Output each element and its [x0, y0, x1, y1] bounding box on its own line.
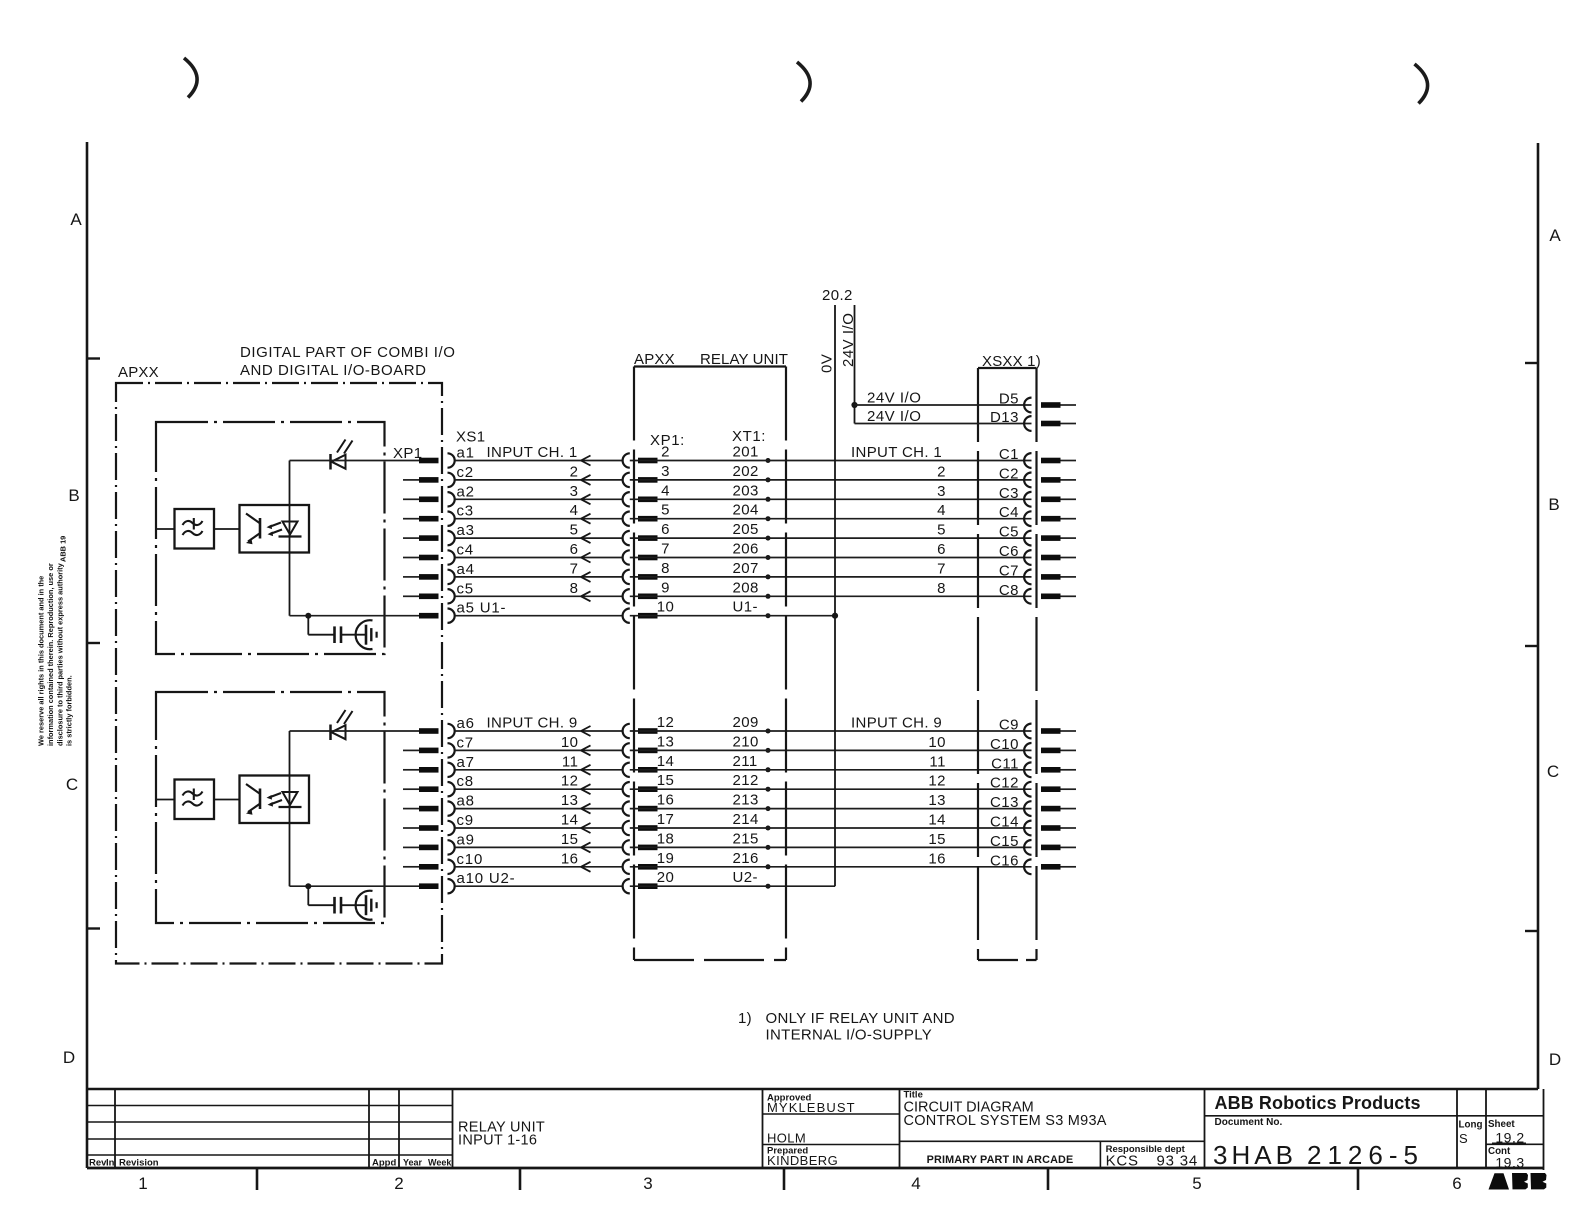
wire U2- rail to XP1 pin — [290, 885, 420, 887]
svg-text:ABB 19: ABB 19 — [59, 536, 68, 562]
svg-text:11: 11 — [929, 753, 946, 770]
title block — [87, 1088, 1538, 1090]
wire stub inside board to XP1 pin (row a7) — [403, 769, 419, 771]
svg-text:2: 2 — [394, 1174, 403, 1193]
signal direction arrow (into board) — [581, 726, 591, 731]
signal direction arrow (into board) — [581, 572, 591, 577]
wire LED branch vertical (cathode of D1 to U1- rail) — [289, 461, 291, 616]
24V I/O bus wire — [854, 305, 856, 424]
wire stub inside board to XP1 pin (row c7) — [403, 749, 419, 751]
connector relay-unit XP1 plug pin 2 — [638, 458, 658, 464]
svg-text:9: 9 — [661, 579, 670, 596]
connector XSXX socket pin C2 — [1024, 473, 1031, 488]
svg-text:0V: 0V — [819, 354, 836, 373]
terminal XT1 207 junction dot — [766, 574, 771, 579]
svg-text:CONTROL SYSTEM S3 M93A: CONTROL SYSTEM S3 M93A — [904, 1113, 1107, 1129]
wire XT1 214 to XSXX C14 — [630, 827, 1032, 829]
board outline APXX digital part of combi I/O (dash-dot box) — [116, 383, 442, 964]
terminal XT1 204 junction dot — [766, 516, 771, 521]
wire XT1 211 to XSXX C11 — [630, 769, 1032, 771]
capacitor C1 — [333, 626, 336, 643]
connector XSXX socket pin C13 — [1024, 801, 1031, 816]
svg-text:5: 5 — [661, 502, 670, 519]
svg-text:c5: c5 — [457, 580, 474, 597]
connector XS1 socket c7 — [448, 743, 455, 757]
connector XP1 plug pin (row c7) — [419, 748, 439, 754]
svg-text:information contained therein.: information contained therein. Reproduct… — [46, 563, 55, 746]
wire stub right of XSXX C13 — [1061, 808, 1077, 810]
svg-text:C: C — [66, 775, 78, 794]
connector relay-unit XP1 plug pin 8 — [638, 574, 658, 580]
svg-text:B: B — [68, 486, 79, 505]
signal direction arrow (into board) — [581, 533, 591, 538]
optocoupler U2 light arrows — [269, 793, 281, 798]
svg-text:C12: C12 — [990, 775, 1019, 792]
wire XS1 a8 to relay-unit XP1 pin 16 — [455, 808, 623, 810]
svg-text:4: 4 — [911, 1174, 920, 1193]
svg-text:a5 U1-: a5 U1- — [457, 600, 507, 617]
svg-text:24V I/O: 24V I/O — [867, 408, 921, 425]
svg-text:Appd: Appd — [372, 1158, 396, 1169]
svg-text:c7: c7 — [457, 734, 474, 751]
connector relay-unit XP1 plug pin 4 — [638, 497, 658, 503]
svg-text:18: 18 — [657, 830, 675, 847]
connector XSXX plug pin C6 — [1041, 555, 1061, 561]
connector XS1 socket a4 — [448, 570, 455, 584]
wire XS1 c7 to relay-unit XP1 pin 13 — [455, 749, 623, 751]
svg-text:93 34: 93 34 — [1156, 1153, 1198, 1170]
optocoupler U2 box — [240, 776, 310, 824]
svg-text:13: 13 — [928, 792, 946, 809]
connector XSXX plug pin D13 — [1041, 421, 1061, 427]
svg-text:6: 6 — [661, 521, 670, 538]
svg-text:is strictly forbidden.: is strictly forbidden. — [65, 675, 74, 746]
wire XS1 a2 to relay-unit XP1 pin 4 — [455, 498, 623, 500]
connector XSXX socket pin C4 — [1024, 511, 1031, 526]
connector XP1 plug pin (row a3) — [419, 535, 439, 541]
connector XSXX plug pin D5 — [1041, 402, 1061, 408]
svg-text:INPUT CH. 1: INPUT CH. 1 — [487, 444, 578, 461]
connector XSXX socket pin C11 — [1024, 762, 1031, 777]
svg-text:APXX: APXX — [118, 364, 159, 381]
wire XS1 a3 to relay-unit XP1 pin 6 — [455, 537, 623, 539]
connector XS1 socket a5 — [448, 609, 455, 623]
svg-text:C10: C10 — [990, 736, 1019, 753]
signal direction arrow (into board) — [581, 514, 591, 519]
connector XS1 socket c9 — [448, 821, 455, 835]
connector XSXX plug pin C10 — [1041, 748, 1061, 754]
svg-text:209: 209 — [733, 714, 759, 731]
svg-text:c9: c9 — [457, 812, 474, 829]
svg-text:We reserve all rights in this: We reserve all rights in this document a… — [37, 576, 46, 746]
wire XT1 216 to XSXX C16 — [630, 866, 1032, 868]
svg-text:10: 10 — [561, 734, 579, 751]
wire XT1 209 to XSXX C9 — [630, 730, 1032, 732]
svg-text:24V I/O: 24V I/O — [840, 313, 857, 367]
wire stub right of XSXX C9 — [1061, 730, 1077, 732]
connector XP1 plug pin (row c9) — [419, 825, 439, 831]
wire XT1 U2- to 0V bus — [630, 885, 835, 887]
signal direction arrow (into board) — [581, 553, 591, 558]
wire junction to capacitor C2 — [307, 886, 309, 905]
connector relay-unit XP1 socket pin 9 — [623, 589, 630, 603]
connector relay-unit XP1 socket pin 7 — [623, 550, 630, 564]
svg-text:206: 206 — [733, 541, 759, 558]
svg-text:Long: Long — [1459, 1120, 1483, 1131]
svg-text:205: 205 — [733, 521, 759, 538]
connector relay-unit XP1 plug pin 16 — [638, 806, 658, 812]
svg-text:14: 14 — [657, 753, 675, 770]
connector XSXX plug pin C7 — [1041, 574, 1061, 580]
wire stub inside board to XP1 pin (row a9) — [403, 846, 419, 848]
connector XS1 socket a7 — [448, 763, 455, 777]
wire XT1 204 to XSXX C4 — [630, 518, 1032, 520]
connector XP1 plug pin (row a8) — [419, 806, 439, 812]
connector relay-unit XP1 socket pin 6 — [623, 531, 630, 545]
connector XSXX socket pin D5 — [1024, 398, 1031, 413]
svg-text:C11: C11 — [991, 755, 1019, 772]
terminal XT1 210 junction dot — [766, 748, 771, 753]
svg-text:disclosure to third parties wi: disclosure to third parties without expr… — [55, 562, 64, 746]
svg-text:INPUT 1-16: INPUT 1-16 — [458, 1133, 537, 1149]
wire stub right of XSXX C15 — [1061, 846, 1077, 848]
svg-text:C16: C16 — [990, 852, 1019, 869]
wire capacitor C1 to ground — [341, 634, 366, 636]
svg-text:20.2: 20.2 — [822, 287, 853, 304]
connector XSXX socket pin C5 — [1024, 531, 1031, 546]
signal direction arrow (into board) — [581, 745, 591, 750]
junction 0V bus to U1- rail — [832, 613, 838, 619]
svg-text:4: 4 — [661, 482, 670, 499]
wire stub right of XSXX D13 — [1061, 423, 1077, 425]
svg-text:c4: c4 — [457, 542, 474, 559]
connector XSXX plug pin C5 — [1041, 535, 1061, 541]
wire XT1 210 to XSXX C10 — [630, 749, 1032, 751]
svg-text:10: 10 — [928, 734, 946, 751]
svg-text:INPUT CH. 9: INPUT CH. 9 — [487, 715, 578, 732]
wire XT1 213 to XSXX C13 — [630, 808, 1032, 810]
connector XSXX plug pin C16 — [1041, 864, 1061, 870]
wire 24V I/O to XSXX D5 — [855, 404, 1032, 406]
wire stub right of XSXX C11 — [1061, 769, 1077, 771]
svg-text:C5: C5 — [999, 524, 1019, 541]
signal direction arrow (into board) — [581, 823, 591, 828]
optocoupler U2 phototransistor — [259, 789, 262, 810]
opto channel block 1 outline (dash-dot box) — [156, 422, 385, 654]
wire XS1 c5 to relay-unit XP1 pin 9 — [455, 595, 623, 597]
svg-text:3: 3 — [937, 483, 946, 500]
ground symbol (signal ground) — [356, 620, 373, 649]
wire XT1 201 to XSXX C1 — [630, 460, 1032, 462]
svg-text:3HAB: 3HAB — [1213, 1140, 1297, 1170]
svg-text:1): 1) — [738, 1010, 752, 1027]
connector XP1 plug pin (row c2) — [419, 477, 439, 483]
wire XT1 202 to XSXX C2 — [630, 479, 1032, 481]
svg-text:c10: c10 — [457, 851, 484, 868]
wire anode of LED D2 to XP1 pin — [290, 730, 420, 732]
wire stub right of XSXX C5 — [1061, 537, 1077, 539]
indicator LED D2 — [329, 725, 332, 741]
connector relay-unit XP1 plug pin 19 — [638, 864, 658, 870]
svg-text:C1: C1 — [999, 446, 1019, 463]
terminal XT1 216 junction dot — [766, 864, 771, 869]
svg-text:XSXX 1): XSXX 1) — [982, 353, 1041, 370]
svg-text:D: D — [63, 1048, 75, 1067]
svg-text:20: 20 — [657, 869, 675, 886]
junction on U1- rail (capacitor branch) — [305, 613, 311, 619]
connector XSXX socket pin C16 — [1024, 859, 1031, 874]
svg-text:C8: C8 — [999, 582, 1019, 599]
svg-text:In: In — [106, 1158, 115, 1169]
connector XS1 socket c8 — [448, 782, 455, 796]
svg-text:7: 7 — [570, 560, 579, 577]
connector XP1 plug pin (row a2) — [419, 497, 439, 503]
wire stub inside board to XP1 pin (row c9) — [403, 827, 419, 829]
connector XSXX socket pin C3 — [1024, 492, 1031, 507]
svg-text:14: 14 — [928, 812, 946, 829]
connector XP1 plug pin (row c5) — [419, 594, 439, 600]
connector XSXX socket pin C10 — [1024, 743, 1031, 758]
svg-text:16: 16 — [928, 850, 946, 867]
svg-text:C14: C14 — [990, 814, 1019, 831]
svg-text:PRIMARY PART IN ARCADE: PRIMARY PART IN ARCADE — [927, 1154, 1074, 1166]
connector relay-unit XP1 plug pin 13 — [638, 748, 658, 754]
svg-text:ABB Robotics Products: ABB Robotics Products — [1215, 1093, 1421, 1113]
svg-text:203: 203 — [733, 482, 759, 499]
terminal XT1 211 junction dot — [766, 767, 771, 772]
connector XS1 socket c3 — [448, 512, 455, 526]
svg-text:8: 8 — [570, 580, 579, 597]
svg-text:12: 12 — [657, 714, 675, 731]
svg-text:INPUT CH. 9: INPUT CH. 9 — [851, 715, 942, 732]
connector XSXX plug pin C2 — [1041, 477, 1061, 483]
wire XT1 U1- to 0V bus — [630, 615, 835, 617]
svg-text:INPUT CH. 1: INPUT CH. 1 — [851, 444, 942, 461]
wire XS1 c3 to relay-unit XP1 pin 5 — [455, 518, 623, 520]
wire stub right of XSXX D5 — [1061, 404, 1077, 406]
svg-text:15: 15 — [561, 831, 579, 848]
indicator LED D1 light rays — [337, 440, 346, 453]
svg-text:6: 6 — [937, 541, 946, 558]
wire XT1 205 to XSXX C5 — [630, 537, 1032, 539]
EMI filter FL2 wave symbol — [183, 791, 203, 795]
optocoupler U1 box — [240, 505, 310, 553]
svg-text:215: 215 — [733, 830, 759, 847]
junction on U2- rail (capacitor branch) — [305, 883, 311, 889]
EMI filter FL1 box — [175, 509, 215, 549]
svg-text:MYKLEBUST: MYKLEBUST — [767, 1100, 856, 1115]
connector XP1 plug pin (row a9) — [419, 845, 439, 851]
connector relay-unit XP1 socket pin 15 — [623, 782, 630, 796]
svg-text:3: 3 — [570, 483, 579, 500]
svg-text:APXX: APXX — [634, 351, 675, 368]
wire stub inside board to XP1 pin (row c5) — [403, 595, 419, 597]
wire stub inside board to XP1 pin (row c2) — [403, 479, 419, 481]
wire U1- rail to XP1 pin — [290, 615, 420, 617]
connector XSXX box (dashed) — [978, 367, 1037, 369]
wire stub right of XSXX C1 — [1061, 460, 1077, 462]
connector XP1 plug pin (row c3) — [419, 516, 439, 522]
terminal XT1 U1- junction dot — [766, 613, 771, 618]
svg-text:DIGITAL PART OF COMBI I/O: DIGITAL PART OF COMBI I/O — [240, 344, 455, 361]
svg-text:5: 5 — [1192, 1174, 1201, 1193]
connector XP1 plug pin (row c8) — [419, 786, 439, 792]
connector XSXX plug pin C1 — [1041, 458, 1061, 464]
signal direction arrow (into board) — [581, 456, 591, 461]
svg-text:10: 10 — [657, 599, 675, 616]
svg-text:Document No.: Document No. — [1215, 1117, 1283, 1128]
connector XSXX socket pin C9 — [1024, 724, 1031, 739]
svg-text:XS1: XS1 — [456, 429, 486, 446]
connector XSXX socket pin C12 — [1024, 782, 1031, 797]
svg-text:C: C — [1547, 762, 1559, 781]
wire XT1 207 to XSXX C7 — [630, 576, 1032, 578]
signal direction arrow (into board) — [581, 804, 591, 809]
wire input stub to EMI filter FL1 — [157, 528, 175, 530]
connector XS1 socket c4 — [448, 550, 455, 564]
connector XS1 socket a1 — [448, 453, 455, 467]
connector XS1 socket a10 — [448, 879, 455, 893]
wire XS1 c10 to relay-unit XP1 pin 19 — [455, 866, 623, 868]
svg-text:2: 2 — [937, 463, 946, 480]
svg-text:11: 11 — [562, 753, 579, 770]
wire XS1 a9 to relay-unit XP1 pin 18 — [455, 846, 623, 848]
connector XSXX socket pin C6 — [1024, 550, 1031, 565]
connector XP1 plug pin (row a1) — [419, 458, 439, 464]
connector relay-unit XP1 plug pin 10 — [638, 613, 658, 619]
connector XSXX socket pin C8 — [1024, 589, 1031, 604]
svg-text:2: 2 — [570, 463, 579, 480]
connector relay-unit XP1 plug pin 14 — [638, 767, 658, 773]
signal direction arrow (into board) — [581, 494, 591, 499]
connector XP1 plug pin (row a5 U1-) — [419, 613, 439, 619]
svg-text:D5: D5 — [999, 391, 1019, 408]
wire XT1 215 to XSXX C15 — [630, 846, 1032, 848]
wire stub right of XSXX C8 — [1061, 595, 1077, 597]
EMI filter FL1 wave symbol — [183, 521, 203, 525]
wire stub right of XSXX C10 — [1061, 749, 1077, 751]
connector XS1 socket c2 — [448, 473, 455, 487]
svg-text:3: 3 — [661, 463, 670, 480]
wire EMI filter FL2 to optocoupler U2 — [214, 799, 240, 801]
svg-text:Sheet: Sheet — [1488, 1119, 1515, 1130]
wire LED branch vertical (cathode of D2 to U2- rail) — [289, 731, 291, 886]
EMI filter FL2 box — [175, 780, 215, 820]
terminal XT1 201 junction dot — [766, 458, 771, 463]
connector XS1 socket c10 — [448, 860, 455, 874]
terminal XT1 U2- junction dot — [766, 884, 771, 889]
wire stub right of XSXX C3 — [1061, 498, 1077, 500]
svg-text:U1-: U1- — [733, 599, 758, 616]
svg-text:12: 12 — [561, 773, 579, 790]
svg-text:C9: C9 — [999, 717, 1019, 734]
svg-text:U2-: U2- — [733, 869, 758, 886]
svg-text:15: 15 — [928, 831, 946, 848]
svg-text:C6: C6 — [999, 543, 1019, 560]
svg-text:17: 17 — [657, 811, 675, 828]
svg-text:216: 216 — [733, 850, 759, 867]
svg-text:8: 8 — [937, 580, 946, 597]
ABB logo — [1489, 1173, 1510, 1189]
svg-text:INTERNAL I/O-SUPPLY: INTERNAL I/O-SUPPLY — [766, 1027, 933, 1044]
svg-text:Week: Week — [428, 1158, 452, 1168]
svg-text:C15: C15 — [990, 833, 1019, 850]
terminal XT1 209 junction dot — [766, 729, 771, 734]
terminal XT1 203 junction dot — [766, 497, 771, 502]
connector XSXX plug pin C13 — [1041, 806, 1061, 812]
svg-text:6: 6 — [570, 541, 579, 558]
wire anode of LED D1 to XP1 pin — [290, 460, 420, 462]
wire XS1 c4 to relay-unit XP1 pin 7 — [455, 557, 623, 559]
wire XS1 a10 to relay-unit XP1 pin 20 — [455, 885, 623, 887]
connector relay-unit XP1 socket pin 8 — [623, 570, 630, 584]
connector relay-unit XP1 socket pin 14 — [623, 763, 630, 777]
connector XSXX plug pin C14 — [1041, 825, 1061, 831]
connector XSXX socket pin C7 — [1024, 570, 1031, 585]
connector XS1 socket c5 — [448, 589, 455, 603]
wire stub right of XSXX C14 — [1061, 827, 1077, 829]
svg-text:211: 211 — [733, 753, 758, 770]
wire XS1 a6 to relay-unit XP1 pin 12 — [455, 730, 623, 732]
connector relay-unit XP1 plug pin 3 — [638, 477, 658, 483]
wire stub inside board to XP1 pin (row a3) — [403, 537, 419, 539]
connector relay-unit XP1 plug pin 15 — [638, 786, 658, 792]
wire XT1 203 to XSXX C3 — [630, 498, 1032, 500]
svg-text:7: 7 — [937, 560, 946, 577]
svg-text:5: 5 — [937, 522, 946, 539]
svg-text:a2: a2 — [457, 483, 475, 500]
terminal XT1 212 junction dot — [766, 787, 771, 792]
svg-text:201: 201 — [733, 444, 759, 461]
opto channel block 2 outline (dash-dot box) — [156, 692, 385, 923]
svg-text:Revision: Revision — [119, 1158, 159, 1169]
wire stub inside board to XP1 pin (row c3) — [403, 518, 419, 520]
svg-text:a9: a9 — [457, 831, 475, 848]
connector relay-unit XP1 socket pin 13 — [623, 743, 630, 757]
terminal XT1 214 junction dot — [766, 826, 771, 831]
svg-text:Year: Year — [403, 1158, 423, 1168]
wire input stub to EMI filter FL2 — [157, 799, 175, 801]
svg-text:213: 213 — [733, 792, 759, 809]
optocoupler U1 internal LED — [283, 522, 298, 535]
connector relay-unit XP1 socket pin 4 — [623, 492, 630, 506]
terminal XT1 205 junction dot — [766, 536, 771, 541]
wire XT1 206 to XSXX C6 — [630, 557, 1032, 559]
wire stub inside board to XP1 pin (row a4) — [403, 576, 419, 578]
connector relay-unit XP1 socket pin 2 — [623, 453, 630, 467]
svg-text:C2: C2 — [999, 465, 1019, 482]
wire stub right of XSXX C16 — [1061, 866, 1077, 868]
svg-text:13: 13 — [561, 792, 579, 809]
connector relay-unit XP1 plug pin 5 — [638, 516, 658, 522]
svg-text:Rev: Rev — [89, 1158, 107, 1169]
svg-text:a8: a8 — [457, 793, 475, 810]
connector XP1 plug pin (row a4) — [419, 574, 439, 580]
svg-text:A: A — [1549, 226, 1561, 245]
signal direction arrow (into board) — [581, 591, 591, 596]
connector XS1 socket a9 — [448, 840, 455, 854]
svg-text:202: 202 — [733, 463, 759, 480]
optocoupler U2 internal LED — [283, 792, 298, 805]
svg-text:1: 1 — [138, 1174, 147, 1193]
svg-text:D: D — [1549, 1050, 1561, 1069]
wire stub right of XSXX C4 — [1061, 518, 1077, 520]
svg-text:14: 14 — [561, 812, 579, 829]
connector relay-unit XP1 plug pin 12 — [638, 728, 658, 734]
wire XS1 a7 to relay-unit XP1 pin 14 — [455, 769, 623, 771]
wire stub right of XSXX C7 — [1061, 576, 1077, 578]
svg-text:204: 204 — [733, 502, 759, 519]
